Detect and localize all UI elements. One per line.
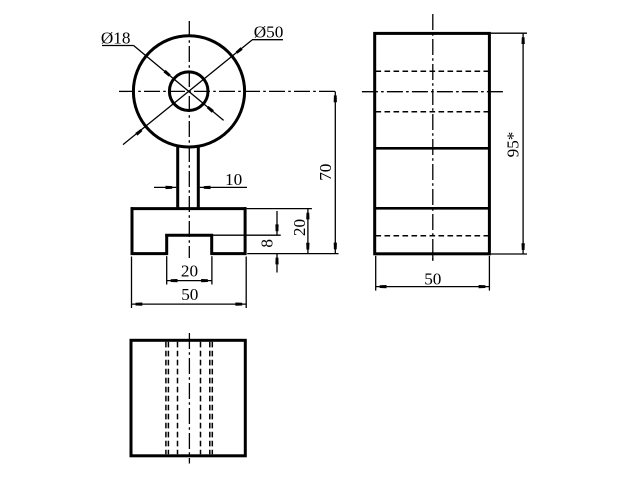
dimension 20 height: top arrowhead: [306, 213, 309, 220]
front view: stem right edge: [197, 147, 200, 207]
dimension 50 front: dimension line: [132, 303, 247, 305]
dimension 10: right arrowhead: [204, 186, 211, 189]
dimension 50 side: dimension line: [376, 286, 490, 288]
side view: vertical centerline bottom stub: [432, 255, 434, 261]
dimension 50 side: right arrowhead: [479, 285, 486, 288]
dimension 50 side: left arrowhead: [380, 285, 387, 288]
svg-text:95*: 95*: [503, 132, 522, 158]
dimension 8: upper leg with arrowhead: [276, 211, 278, 235]
svg-text:Ø18: Ø18: [101, 29, 131, 48]
extension line from notch top right: [213, 234, 281, 236]
svg-text:50: 50: [181, 285, 198, 304]
dimension O50: leader line through circle: [123, 40, 252, 145]
svg-text:8: 8: [257, 239, 276, 248]
dimension 50 front: left extension line: [131, 257, 133, 309]
side view: solid edge disc bottom: [375, 147, 490, 150]
top view: hidden line hole right: [209, 342, 211, 455]
svg-text:10: 10: [225, 170, 242, 189]
side view: vertical centerline: [432, 14, 434, 261]
svg-text:Ø50: Ø50: [254, 23, 284, 42]
front view: inner hole circle: [169, 72, 208, 111]
dimension 50 front: right arrowhead: [235, 303, 242, 306]
top view: hidden line notch left: [165, 342, 167, 455]
dimension 95*: bottom extension line: [491, 253, 527, 255]
dimension 20 notch: dimension line: [167, 280, 212, 282]
dimension 10: left arrowhead: [166, 186, 173, 189]
top view: hidden line notch right: [211, 342, 213, 455]
side view: horizontal centerline: [362, 91, 503, 93]
dimension 95*: top extension line: [491, 32, 527, 34]
side view: hidden line hole bottom: [376, 111, 489, 113]
side view: solid edge block top: [375, 207, 490, 210]
dimension 70: top arrowhead: [334, 95, 337, 102]
dimension 50 side: right extension line: [488, 256, 490, 291]
dimension 10: right dimension line: [200, 186, 247, 188]
dimension 95*: dimension line: [522, 33, 524, 254]
dimension 50 side: left extension line: [375, 256, 377, 291]
dimension 70: bottom arrowhead: [334, 243, 337, 250]
front view: base block bottom-right edge: [211, 252, 247, 255]
svg-text:70: 70: [316, 164, 335, 181]
dimension 20 height: bottom arrowhead: [306, 243, 309, 250]
front view: vertical centerline: [188, 21, 190, 258]
svg-text:20: 20: [290, 219, 309, 236]
dimension 20 height: dimension line: [307, 209, 309, 254]
dimension 50 front: left arrowhead: [136, 303, 143, 306]
dimension O18: lower-right arrowhead: [207, 106, 214, 113]
top view: hidden line hole left: [167, 342, 169, 455]
top view: hidden line stem right: [200, 342, 202, 455]
front view: base block bottom-left edge: [131, 252, 168, 255]
front view: notch left edge: [165, 234, 168, 255]
dimension 70: dimension line: [334, 91, 336, 253]
dimension 8: lower leg with arrowhead: [276, 254, 278, 273]
dimension 95*: bottom arrowhead: [522, 243, 525, 250]
dimension O18: leader line through hole: [134, 46, 224, 121]
dimension 20 notch: right arrowhead: [201, 279, 208, 282]
dimension 95*: top arrowhead: [522, 37, 525, 44]
top view: hidden line stem left: [177, 342, 179, 455]
dimension 50 front: right extension line: [245, 257, 247, 309]
front view: outer circle body: [133, 36, 244, 147]
extension line from block top right: [247, 208, 312, 210]
top view: square outline: [131, 340, 245, 456]
front view: horizontal centerline: [119, 90, 338, 92]
side view: rectangle outline: [375, 33, 490, 253]
dimension O50: lower-left arrowhead: [135, 129, 142, 136]
front view: base block left edge: [131, 207, 134, 255]
svg-text:20: 20: [181, 261, 198, 280]
front view: base block right edge: [244, 207, 247, 255]
svg-text:50: 50: [424, 270, 441, 289]
dimension 10: left dimension line: [154, 186, 176, 188]
front view: notch top edge: [165, 234, 213, 237]
front view: base block top edge: [131, 207, 247, 210]
top view: vertical centerline: [188, 333, 190, 464]
dimension 20 notch: left extension line: [166, 256, 168, 284]
dimension 20 notch: left arrowhead: [171, 279, 178, 282]
side view: hidden line hole top: [376, 70, 489, 72]
dimension O50: label underline: [252, 39, 283, 41]
dimension 20 notch: right extension line: [211, 256, 213, 284]
front view: stem left edge: [176, 147, 179, 207]
front view: notch right edge: [210, 234, 213, 255]
side view: hidden line notch top: [376, 235, 489, 237]
extension line from block bottom right: [247, 253, 338, 255]
dimension O50: upper-right arrowhead: [236, 47, 243, 54]
dimension O18: upper-left arrowhead: [164, 70, 171, 77]
dimension O18: label underline: [102, 45, 134, 47]
